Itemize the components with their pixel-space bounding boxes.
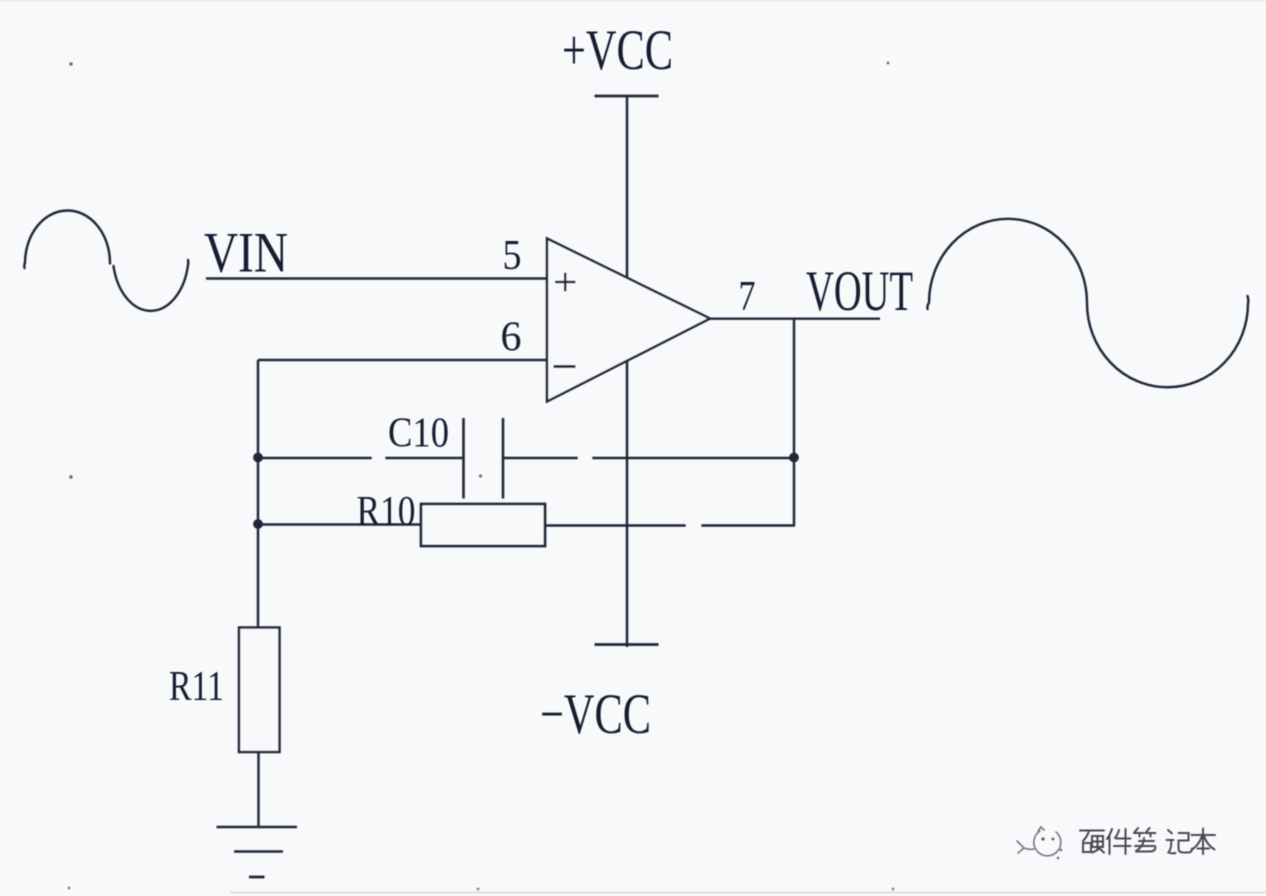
wire VCC rail vertical (+VCC down to -VCC) bbox=[626, 96, 629, 647]
wire gap artifact on C10 left segment bbox=[372, 456, 385, 461]
wire gap artifact on C10 right segment bbox=[578, 456, 592, 461]
wire left vertical (inverting node down to R11) bbox=[257, 360, 259, 627]
svg-text:+VCC: +VCC bbox=[562, 19, 673, 82]
watermark logo doodle bbox=[1017, 827, 1061, 856]
wire R10 right segment bbox=[545, 524, 795, 526]
char 件 bbox=[1107, 829, 1131, 854]
noise speck left-middle bbox=[69, 475, 72, 478]
wire R11 to ground bbox=[257, 752, 259, 827]
svg-text:6: 6 bbox=[501, 315, 522, 361]
wire gap artifact on R10 right segment bbox=[686, 523, 701, 528]
top edge faint stripe bbox=[0, 0, 1266, 2]
char 笔 bbox=[1134, 828, 1156, 852]
junction node on feedback at C10 wire bbox=[789, 453, 799, 463]
junction node on R10 wire left bbox=[253, 519, 263, 529]
wire output to VOUT bbox=[710, 317, 880, 319]
op-amp plus input marking bbox=[555, 273, 576, 292]
noise speck top-left bbox=[69, 62, 72, 65]
ground symbol bar 3 bbox=[249, 876, 265, 879]
resistor R10 body bbox=[421, 504, 545, 546]
capacitor C10 right plate bbox=[502, 418, 505, 499]
watermark logo eye dots bbox=[1041, 837, 1062, 859]
ground symbol bar 2 bbox=[234, 850, 283, 853]
ground symbol bar 1 bbox=[217, 826, 298, 829]
input sine squiggle bbox=[24, 211, 188, 311]
power symbol +VCC bar bbox=[595, 95, 659, 98]
output sine squiggle bbox=[927, 219, 1248, 387]
noise speck bottom-left bbox=[68, 887, 71, 890]
svg-text:VIN: VIN bbox=[204, 222, 288, 285]
noise speck bottom-middle bbox=[477, 888, 480, 891]
svg-text:−VCC: −VCC bbox=[540, 683, 651, 746]
noise speck between capacitor plates bbox=[479, 474, 482, 477]
wire C10 left segment bbox=[258, 457, 464, 459]
svg-text:R11: R11 bbox=[169, 664, 224, 710]
watermark text 硬件笔记本 (drawn strokes) bbox=[1080, 828, 1215, 854]
wire feedback vertical from output node bbox=[793, 319, 795, 526]
wire VIN to + input bbox=[206, 277, 547, 279]
svg-text:5: 5 bbox=[503, 233, 522, 279]
bottom edge faint stripe bbox=[230, 892, 1266, 894]
svg-text:R10: R10 bbox=[357, 489, 416, 535]
char 硬 bbox=[1080, 831, 1104, 853]
svg-text:VOUT: VOUT bbox=[806, 260, 913, 323]
wire inverting input horizontal bbox=[258, 359, 547, 361]
noise speck bottom-right bbox=[892, 888, 895, 891]
char 记 bbox=[1167, 830, 1193, 853]
wire R10 left segment bbox=[258, 523, 421, 525]
capacitor C10 left plate bbox=[462, 418, 465, 499]
resistor R11 body bbox=[239, 628, 280, 753]
wire C10 right segment bbox=[503, 457, 794, 459]
char 本 bbox=[1192, 829, 1216, 855]
power symbol -VCC bar bbox=[595, 643, 659, 646]
svg-text:C10: C10 bbox=[388, 411, 449, 457]
op-amp minus input marking bbox=[554, 365, 576, 368]
svg-text:7: 7 bbox=[739, 274, 756, 320]
junction node on C10 wire left bbox=[253, 453, 263, 463]
noise speck top-right bbox=[887, 62, 890, 65]
op-amp U triangle bbox=[547, 239, 710, 402]
